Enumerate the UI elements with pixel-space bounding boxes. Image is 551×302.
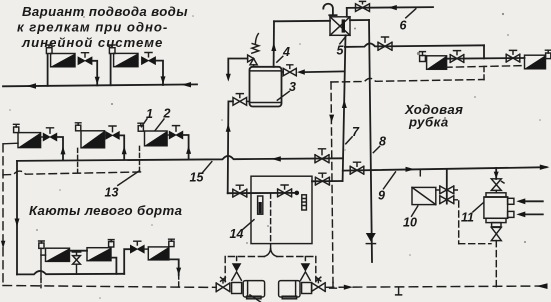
label 15 with leader — [190, 162, 212, 185]
valve V1 on box 14 feed — [233, 185, 247, 197]
air cock of heater M1 — [14, 124, 20, 132]
flow arrow down on left downcomer — [15, 219, 20, 227]
wire: dashed run to heater 11 valve — [459, 243, 491, 245]
wire: sample single-pipe main — [3, 84, 197, 86]
valve on tank bottom feed — [233, 94, 250, 106]
pump P1 — [243, 281, 264, 299]
valve on supply run y46 — [378, 37, 392, 50]
wire: M2 outlet drop — [119, 135, 124, 159]
wire: dashed suction branch left — [225, 257, 264, 282]
label 2 with leader — [155, 107, 171, 131]
flow arrow up on M1 drop — [61, 146, 66, 154]
label 10 with leader — [403, 206, 418, 230]
flow arrow left on sample main (right) — [182, 82, 192, 87]
air cock of heater C2 — [108, 240, 114, 247]
control box 14 — [251, 176, 312, 243]
label 7 with leader — [346, 125, 360, 144]
wire: main supply line with crossing hump — [17, 156, 343, 161]
valve at pump group right — [312, 277, 326, 291]
heater M3 — [145, 131, 168, 146]
heater TR1 — [427, 56, 447, 70]
wire: vent line to right — [347, 6, 433, 9]
flow arrow down on heater 11 drop — [494, 172, 499, 179]
wire: drop to water heater 11 — [495, 168, 497, 179]
foot of dashed riser x331 — [330, 283, 337, 289]
wire: bottom return dashed (right part) — [325, 286, 548, 287]
svg-text:10: 10 — [403, 216, 417, 230]
valve of heater TR2 — [506, 50, 520, 62]
wire: S2 left riser — [110, 54, 112, 85]
wire: S1 outlet drop — [92, 61, 97, 86]
wire: safety valve discharge — [228, 59, 247, 76]
label 6 with leader — [400, 9, 416, 33]
level gauge in box 14 — [302, 195, 307, 210]
wire: M1 outlet drop — [57, 137, 63, 160]
svg-text:14: 14 — [230, 227, 244, 241]
valve above heater 11 — [491, 179, 504, 191]
valve of heater TR1 — [450, 51, 464, 63]
flow arrow down on discharge — [226, 74, 231, 82]
label 1 with leader — [142, 107, 154, 127]
valve of heater M1 — [41, 128, 57, 141]
thermometer in box 14 — [258, 196, 263, 214]
wire: M3 outlet drop — [183, 135, 189, 159]
wire: top-right heater row line — [447, 57, 525, 60]
heater 11 bottom flange — [492, 223, 501, 227]
label 14 with leader — [230, 220, 255, 241]
heater M2 — [81, 131, 105, 148]
wire: C3 dashed drop to bottom return — [178, 275, 180, 287]
flow arrow at right end of bottom return — [537, 283, 548, 289]
flow arrow down on S1 drop — [95, 77, 100, 85]
valve of heater C3 — [130, 241, 148, 253]
wire: dashed drop x458 — [458, 201, 460, 244]
suction branch split arcs — [264, 249, 276, 257]
svg-text:13: 13 — [105, 186, 119, 200]
svg-text:линейной системе: линейной системе — [21, 35, 163, 50]
wire: bottom return dashed (left part) — [3, 286, 212, 288]
valve on vent line — [356, 1, 370, 11]
heater M1 — [18, 133, 41, 148]
pump P2 — [279, 281, 300, 299]
vent gooseneck above box 5 — [323, 4, 336, 15]
heater 11 upper nozzle — [508, 198, 514, 204]
svg-text:3: 3 — [289, 80, 296, 94]
wire: supply corner drop to top-right heater row — [483, 45, 485, 58]
node: feed line end dot — [295, 191, 300, 196]
valve of heater S2 — [142, 53, 156, 65]
flow arrow up on tank riser — [271, 43, 276, 51]
flow arrow right at end of line y170 — [540, 165, 550, 170]
wire: dashed left return border — [2, 144, 4, 286]
wire: tank riser to expansion box — [273, 21, 275, 67]
wire: dashed drain from heater 11 to bottom return — [495, 241, 497, 287]
svg-text:рубка: рубка — [408, 115, 449, 130]
svg-text:6: 6 — [400, 19, 408, 33]
wire: rise to heater C3 — [124, 249, 130, 274]
valve on main supply near node A — [315, 149, 329, 163]
heater TR2 — [525, 55, 546, 69]
wire: S2 outlet drop — [156, 61, 164, 85]
svg-text:7: 7 — [352, 125, 360, 139]
wire: feed riser x228 down to box 14 — [228, 101, 233, 193]
flow arrow down on C3 drop — [176, 268, 181, 275]
valve of heater M2 — [105, 126, 120, 139]
valve on tank outlet (right) — [282, 65, 297, 76]
flow arrow down on S2 drop — [161, 76, 166, 84]
check valve to pump P2 — [301, 257, 311, 281]
heater C3 — [148, 247, 169, 260]
wire: C2 outlet drop — [111, 258, 116, 274]
valve on bypass line y181 — [315, 173, 329, 185]
wire: dashed return line 13 with hump — [3, 171, 144, 175]
valve of heater S1 — [78, 53, 92, 65]
wire: cabins supply line with hump — [17, 271, 124, 274]
wire: M1 stub to return riser — [3, 142, 18, 145]
wire: C3 outlet drop — [169, 259, 179, 275]
wire: S1 left riser — [47, 55, 49, 86]
wire: bypass line y181 to node A — [312, 180, 343, 182]
air cock of heater M2 — [75, 123, 81, 131]
flow arrow left into tank outlet — [297, 69, 305, 74]
pump P1 inlet flange — [232, 283, 242, 294]
wire: box 5 top outlet riser — [346, 8, 348, 17]
air cock of sample heater S1 — [46, 45, 52, 54]
valve on line y170 near node A — [350, 162, 364, 174]
valve at pump group left — [213, 277, 230, 291]
wire: left supply downcomer to cabins — [16, 161, 18, 275]
svg-text:11: 11 — [461, 211, 474, 225]
wire: wheelhouse supply line y170 — [343, 167, 547, 170]
wire: M3 dashed return riser — [139, 146, 141, 172]
label 3 with leader — [277, 80, 296, 100]
air cock of heater TR2 — [545, 50, 551, 58]
svg-text:Вариант подвода воды: Вариант подвода воды — [22, 4, 188, 19]
flow arrow up on M3 drop — [186, 146, 191, 154]
flow arrow left on vent line — [388, 5, 397, 10]
wire: drop to gauge box 10 — [446, 169, 448, 204]
drain tick on bottom return — [396, 288, 402, 295]
flow arrow into upper nozzle — [516, 198, 543, 204]
wire: C1 vent drop through hump to return — [40, 248, 42, 287]
pump P2 outlet flange — [302, 283, 312, 294]
label 9 with leader — [378, 172, 396, 203]
flow arrow right on line y170 — [406, 167, 415, 172]
wire: M2 dashed return riser — [77, 148, 79, 172]
water heater 11 body — [484, 190, 508, 222]
label 5 with leader — [337, 36, 346, 57]
wire: dashed riser x331 to pumps — [331, 82, 333, 283]
label 8 with leader — [373, 135, 386, 153]
label 13 with leader — [105, 171, 140, 200]
air cock of heater C1 — [39, 241, 46, 255]
valve below heater 11 — [491, 227, 501, 240]
svg-text:9: 9 — [378, 189, 385, 203]
flow arrow up on M2 drop — [122, 146, 127, 154]
junction tick on line y170 — [419, 170, 421, 176]
wire: dashed return main y80 with hump over line 8 — [331, 78, 484, 82]
wire: dashed return under TR heaters — [445, 66, 524, 68]
wire: riser top run to box 5 — [274, 20, 330, 23]
expansion box 5 — [330, 17, 350, 36]
air cock of heater C3 — [169, 239, 175, 246]
svg-text:Каюты левого борта: Каюты левого борта — [29, 203, 182, 218]
air cock of sample heater S2 — [109, 45, 115, 54]
wire: dashed return drop at x484 — [483, 67, 485, 80]
check valve to pump P1 — [232, 257, 242, 281]
wire: node A vertical (box5 bottom to line 181) — [343, 35, 346, 181]
wire: dashed suction branch right — [277, 257, 316, 282]
flow arrow up on node A vertical — [342, 100, 347, 108]
label 12 leader — [250, 295, 260, 302]
valve V2 on box 14 feed — [278, 185, 292, 197]
flow arrow right on bottom return — [344, 285, 353, 290]
wire: supply run y46 from node A with hump — [345, 43, 484, 46]
heater C1 — [46, 248, 70, 261]
valve between C1 and C2 — [72, 252, 80, 274]
wire: dashed stubs right of valves — [454, 190, 459, 200]
air cock of heater M3 — [138, 123, 144, 131]
check valve on line 8 bottom — [366, 233, 376, 244]
wire: dashed suction inside box 14 — [270, 193, 272, 248]
heater 11 lower nozzle — [508, 211, 514, 217]
wire: line 8 vertical — [369, 20, 372, 262]
valve pair above box 10 (upper) — [440, 186, 454, 194]
valve of heater M3 — [167, 126, 183, 139]
label 11 with leader — [461, 203, 483, 225]
gauge box 10 — [412, 187, 440, 204]
tank 3 (hot water tank) — [250, 67, 282, 107]
flow arrow left on main supply — [272, 156, 281, 161]
heater C2 — [87, 248, 111, 261]
wire: feed line into box 14 — [228, 192, 295, 194]
wire: link C1 to C2 — [70, 250, 88, 252]
flow arrow into lower nozzle — [516, 212, 543, 218]
label 4 with leader — [277, 45, 290, 62]
flow arrow down on dashed riser x331 — [329, 115, 334, 123]
flow arrow left on sample main (left) — [27, 83, 37, 88]
wire: tank outlet run to node A — [305, 70, 344, 73]
wire: box 5 side link to line 8 — [350, 19, 369, 21]
safety valve 4 on tank top — [248, 34, 259, 67]
flow arrow down on left return border — [1, 241, 6, 249]
heater S1 — [51, 54, 75, 67]
flow arrow up on feed riser — [226, 123, 231, 131]
air cock of heater TR1 — [420, 52, 426, 62]
heater S2 — [114, 53, 138, 66]
svg-text:5: 5 — [337, 44, 345, 58]
svg-text:к грелкам при одно-: к грелкам при одно- — [17, 20, 168, 35]
valve pair above box 10 (lower) — [440, 196, 454, 204]
